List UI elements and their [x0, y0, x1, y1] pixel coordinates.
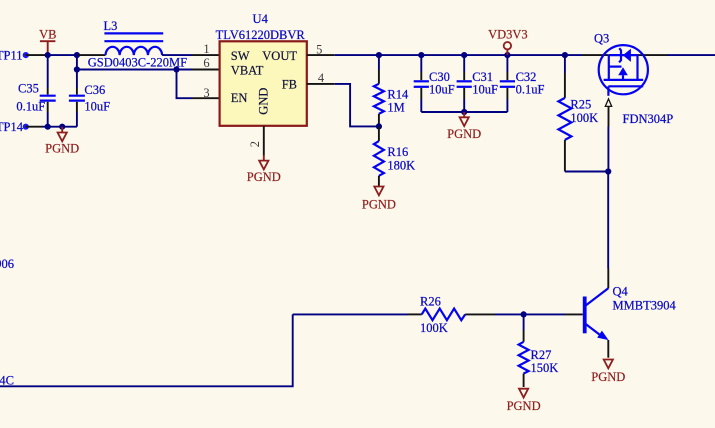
svg-text:FB: FB: [282, 78, 297, 92]
pin 2 GND lead: [263, 126, 265, 156]
resistor R27: [519, 314, 559, 387]
wire VBAT row: [77, 69, 220, 71]
svg-text:U4: U4: [253, 12, 269, 26]
resistor R26: [408, 295, 495, 335]
node cap ground junction: [461, 109, 467, 115]
ground PGND (left): [45, 127, 79, 156]
test point TP14: [0, 120, 29, 134]
svg-text:4: 4: [318, 71, 325, 85]
svg-text:1M: 1M: [387, 101, 404, 115]
svg-text:GND: GND: [256, 88, 270, 115]
resistor R16: [374, 126, 415, 186]
svg-text:Q4: Q4: [613, 284, 629, 298]
svg-text:MMBT3904: MMBT3904: [613, 298, 677, 312]
capacitor C35: [16, 55, 55, 127]
svg-text:L3: L3: [104, 19, 118, 33]
transistor Q3: [594, 31, 673, 126]
wire junction to Q4 base: [524, 313, 583, 315]
svg-text:10uF: 10uF: [84, 99, 110, 113]
svg-text:R16: R16: [387, 145, 408, 159]
wire TP14 row: [26, 126, 77, 128]
svg-text:VBAT: VBAT: [231, 64, 264, 78]
svg-text:906: 906: [0, 257, 14, 271]
ground PGND (under U4): [247, 156, 281, 184]
node C30 junction: [418, 52, 424, 58]
wire R25 to gate column: [565, 171, 608, 173]
svg-text:0.1uF: 0.1uF: [16, 99, 45, 113]
svg-text:PGND: PGND: [45, 141, 79, 155]
node C31 junction: [461, 52, 467, 58]
node C35 bottom junction: [45, 124, 51, 130]
node gate junction: [605, 168, 611, 174]
ground PGND (under C31): [447, 112, 481, 141]
node base junction: [521, 311, 527, 317]
node VB junction: [45, 52, 51, 58]
capacitor C31: [457, 55, 498, 112]
node C36 top junction: [74, 52, 80, 58]
svg-text:GSD0403C-220MF: GSD0403C-220MF: [88, 56, 187, 70]
capacitor C36: [69, 55, 110, 127]
svg-text:4C: 4C: [0, 374, 14, 388]
resistor R25: [558, 55, 598, 171]
svg-text:PGND: PGND: [507, 399, 541, 413]
test point TP11: [0, 48, 29, 62]
svg-text:3: 3: [203, 86, 209, 100]
svg-text:180K: 180K: [387, 159, 415, 173]
svg-text:VD3V3: VD3V3: [488, 28, 528, 42]
capacitor C32: [500, 55, 545, 112]
wire FB loop: [307, 84, 379, 127]
svg-text:PGND: PGND: [362, 198, 396, 212]
power port VB: [39, 28, 56, 55]
node R25 junction: [562, 52, 568, 58]
wire EN loop: [177, 70, 220, 99]
svg-text:TLV61220DBVR: TLV61220DBVR: [216, 28, 306, 42]
svg-text:150K: 150K: [531, 361, 559, 375]
node FB-R14-R16 junction: [376, 123, 382, 129]
wire R26 to junction: [495, 313, 524, 315]
svg-text:0.1uF: 0.1uF: [516, 82, 545, 96]
svg-text:6: 6: [203, 56, 209, 70]
svg-text:10uF: 10uF: [472, 82, 498, 96]
ground PGND (under R16): [362, 187, 396, 212]
svg-text:EN: EN: [231, 91, 248, 105]
wire TP11 to VB node: [26, 54, 48, 56]
ground PGND (under Q4): [591, 360, 625, 385]
node R14 top junction: [376, 52, 382, 58]
svg-text:PGND: PGND: [591, 370, 625, 384]
transistor Q4: [583, 284, 677, 340]
wire VB node to C36 node: [48, 54, 78, 56]
svg-text:FDN304P: FDN304P: [623, 112, 674, 126]
svg-text:SW: SW: [231, 49, 250, 63]
wire base row left: [293, 313, 408, 315]
svg-text:Q3: Q3: [594, 31, 609, 45]
svg-text:PGND: PGND: [247, 170, 281, 184]
svg-text:100K: 100K: [570, 111, 598, 125]
node C32 junction: [504, 52, 510, 58]
svg-text:1: 1: [203, 42, 209, 56]
svg-text:VB: VB: [39, 28, 56, 42]
op-amp U4 body: [216, 12, 307, 126]
wire VOUT rail: [307, 54, 715, 56]
svg-text:100K: 100K: [420, 321, 448, 335]
inductor L3: [88, 19, 188, 70]
node PGND junction: [59, 124, 65, 130]
node C36-VBAT junction: [74, 66, 80, 72]
resistor R14: [374, 55, 409, 126]
wire Q3 gate down: [607, 106, 609, 171]
capacitor C30: [414, 55, 455, 112]
wire C36 node to L3: [78, 54, 106, 56]
svg-text:VOUT: VOUT: [262, 49, 297, 63]
svg-text:TP14: TP14: [0, 120, 24, 134]
wire bottom-left net: [0, 314, 293, 386]
node VBAT-EN junction: [173, 66, 179, 72]
wire Q4 emitter: [607, 340, 609, 358]
svg-text:2: 2: [248, 141, 262, 147]
wire gate junction to Q4 collector: [607, 172, 609, 289]
wire capacitor ground rail: [421, 111, 507, 113]
svg-text:C36: C36: [84, 83, 105, 97]
svg-text:R26: R26: [420, 295, 441, 309]
Q3 gate arrow: [605, 99, 611, 107]
svg-text:PGND: PGND: [447, 127, 481, 141]
svg-text:R14: R14: [387, 88, 409, 102]
wire L3 to U4 pin1: [162, 54, 220, 56]
power port VD3V3: [488, 28, 528, 55]
ground PGND (under R27): [507, 389, 541, 413]
svg-text:TP11: TP11: [0, 48, 23, 62]
svg-text:10uF: 10uF: [429, 82, 455, 96]
svg-text:C35: C35: [18, 81, 39, 95]
svg-text:R25: R25: [570, 98, 591, 112]
